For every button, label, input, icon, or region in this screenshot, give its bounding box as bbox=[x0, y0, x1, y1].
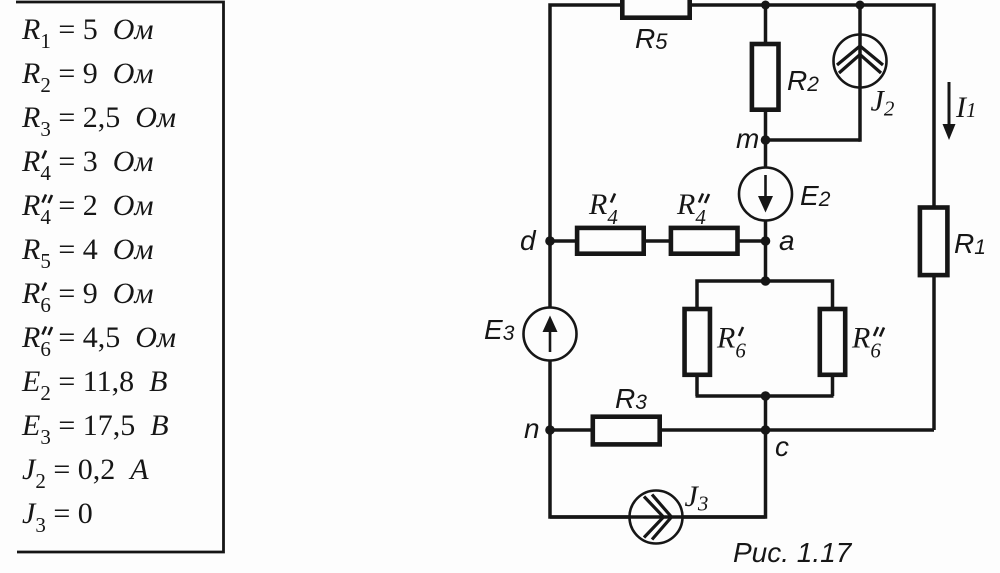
svg-text:J2 = 0,2 А: J2 = 0,2 А bbox=[22, 453, 149, 493]
svg-text:J3 = 0: J3 = 0 bbox=[22, 497, 93, 537]
svg-text:R3: R3 bbox=[615, 383, 647, 414]
svg-text:R5 = 4 Ом: R5 = 4 Ом bbox=[21, 233, 154, 273]
svg-text:R4 = 2 Ом: R4 = 2 Ом bbox=[21, 189, 154, 229]
wire n-c row bbox=[550, 428, 934, 432]
node dot top-J2 bbox=[856, 1, 865, 10]
node junction a-R6 dot bbox=[761, 276, 771, 286]
current I1 arrow bbox=[943, 82, 956, 140]
resistor R4'' bbox=[671, 228, 738, 254]
svg-text:R2 = 9 Ом: R2 = 9 Ом bbox=[21, 57, 154, 97]
wire R6 row to c bbox=[764, 396, 768, 430]
source J3 chevrons bbox=[644, 495, 672, 540]
svg-text:R1: R1 bbox=[954, 228, 986, 259]
wire d-a row bbox=[550, 239, 766, 243]
svg-text:E3: E3 bbox=[484, 314, 515, 345]
svg-text:R5: R5 bbox=[635, 23, 668, 54]
svg-text:R4 = 3 Ом: R4 = 3 Ом bbox=[21, 145, 154, 185]
wire R2 branch m to a bbox=[764, 5, 768, 241]
node m dot bbox=[761, 135, 771, 145]
node d dot bbox=[545, 236, 555, 246]
resistor R6'' bbox=[820, 309, 845, 375]
node c dot bbox=[761, 425, 771, 435]
parameter list bbox=[21, 13, 176, 537]
svg-text:R6 = 9 Ом: R6 = 9 Ом bbox=[21, 277, 154, 317]
wire outer loop: c drop, bottom rail, left rail, top rail, right rail bbox=[550, 5, 934, 517]
parameter box border bbox=[16, 2, 224, 552]
resistor R1 bbox=[920, 208, 948, 276]
svg-text:m: m bbox=[736, 123, 759, 154]
resistor R4' bbox=[577, 228, 644, 254]
svg-text:J2: J2 bbox=[871, 85, 895, 121]
source J2 chevrons bbox=[837, 46, 883, 73]
source E3 circle bbox=[524, 308, 577, 361]
node n dot bbox=[545, 425, 555, 435]
svg-text:R6 = 4,5 Ом: R6 = 4,5 Ом bbox=[21, 321, 176, 361]
wire m to J2 bottom bbox=[766, 138, 861, 142]
node junction R6-c dot bbox=[761, 391, 771, 401]
wire through J3 bbox=[550, 515, 766, 519]
source E3 arrow bbox=[543, 316, 558, 353]
svg-text:Рис. 1.17: Рис. 1.17 bbox=[733, 537, 853, 568]
svg-text:E2: E2 bbox=[800, 180, 831, 211]
svg-text:n: n bbox=[524, 413, 540, 444]
wire R6 bottom row bbox=[696, 394, 834, 398]
node a dot bbox=[761, 236, 771, 246]
source J2 circle bbox=[834, 35, 887, 88]
svg-text:c: c bbox=[775, 431, 789, 462]
wire a to R6 top row bbox=[764, 241, 768, 281]
source E2 circle bbox=[739, 168, 792, 221]
source J3 circle bbox=[630, 491, 683, 544]
source E2 arrow bbox=[758, 175, 773, 213]
resistor R3 bbox=[593, 417, 660, 445]
resistor R2 bbox=[752, 44, 779, 110]
node dot top-R2 bbox=[761, 1, 770, 10]
svg-text:d: d bbox=[520, 225, 537, 256]
svg-text:R1 = 5 Ом: R1 = 5 Ом bbox=[21, 13, 154, 53]
svg-text:a: a bbox=[779, 225, 795, 256]
svg-text:E3 = 17,5 В: E3 = 17,5 В bbox=[21, 409, 169, 449]
svg-text:E2 = 11,8 В: E2 = 11,8 В bbox=[21, 365, 167, 405]
resistor R6' bbox=[685, 309, 710, 375]
svg-text:R3 = 2,5 Ом: R3 = 2,5 Ом bbox=[21, 101, 176, 141]
svg-text:I1: I1 bbox=[955, 91, 977, 124]
resistor R5 bbox=[622, 0, 689, 18]
wire through J2 bbox=[858, 5, 862, 142]
svg-text:J3: J3 bbox=[685, 480, 709, 516]
svg-text:R2: R2 bbox=[787, 65, 819, 96]
wire R6 drops and top row bbox=[697, 281, 833, 396]
